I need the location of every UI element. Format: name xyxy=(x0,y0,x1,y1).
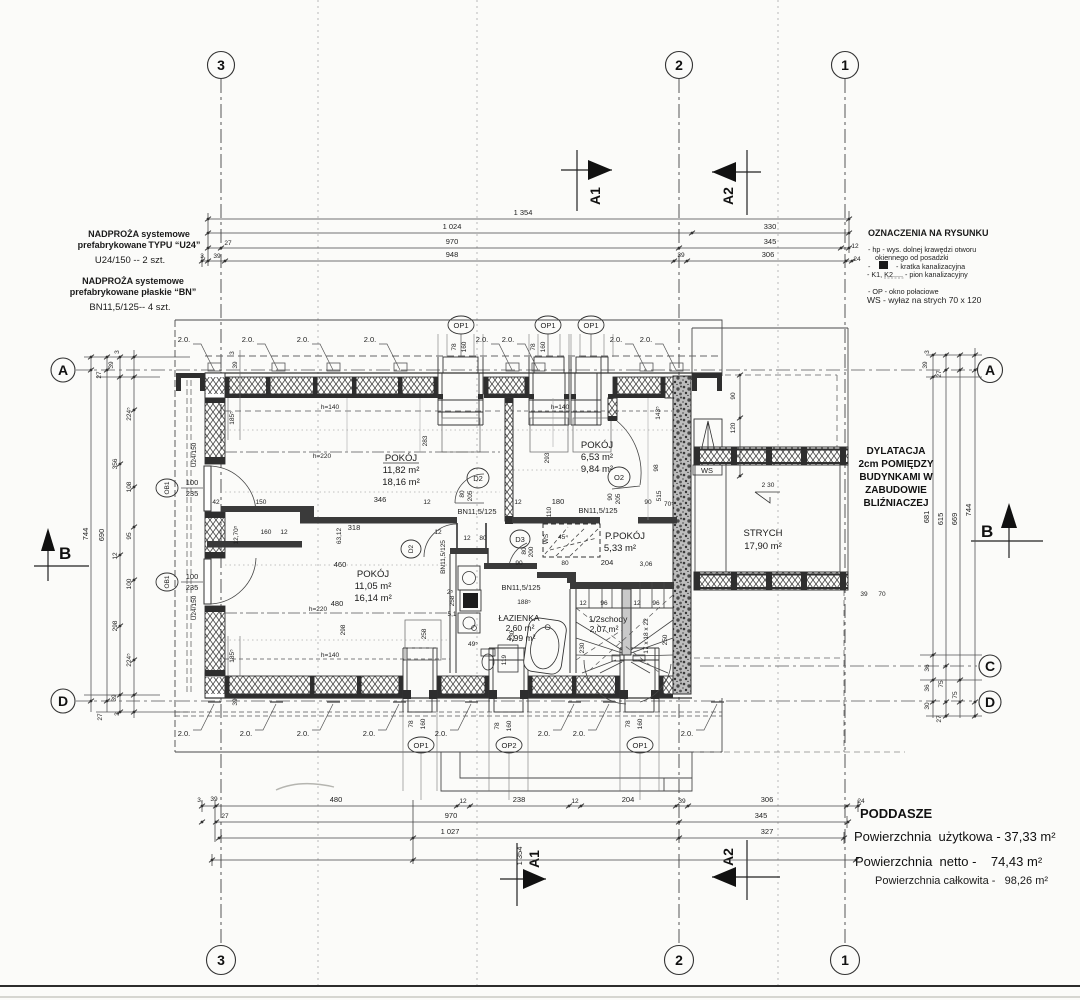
svg-text:O2: O2 xyxy=(614,473,624,482)
svg-text:DYLATACJA: DYLATACJA xyxy=(866,446,925,457)
stairs enclosure walls xyxy=(569,589,571,673)
OB1 label circles xyxy=(156,479,178,497)
svg-text:h=140: h=140 xyxy=(551,404,570,411)
svg-text:9,84 m²: 9,84 m² xyxy=(581,464,613,475)
svg-text:WS: WS xyxy=(701,466,713,475)
section marker B left xyxy=(34,528,89,581)
left dimension column xyxy=(84,350,190,718)
svg-text:293: 293 xyxy=(544,452,551,463)
svg-text:2: 2 xyxy=(675,57,683,73)
bottom step outline xyxy=(441,752,692,791)
svg-text:11,82 m²: 11,82 m² xyxy=(383,465,420,476)
left exterior wall xyxy=(205,398,225,464)
page edge light line xyxy=(0,996,1080,998)
svg-text:27: 27 xyxy=(96,371,103,379)
interior wall U-jog near D2 xyxy=(457,523,486,550)
axis C right circle xyxy=(979,655,1001,677)
svg-text:OB1: OB1 xyxy=(164,575,171,588)
svg-text:480: 480 xyxy=(330,795,343,804)
svg-text:6,53 m²: 6,53 m² xyxy=(581,452,613,463)
interior wall H1 xyxy=(221,506,314,512)
svg-text:12: 12 xyxy=(514,499,522,506)
svg-text:200: 200 xyxy=(528,546,535,557)
svg-text:298: 298 xyxy=(340,624,347,635)
svg-text:90: 90 xyxy=(607,493,614,501)
svg-text:A1: A1 xyxy=(587,187,603,205)
svg-text:C: C xyxy=(985,658,995,674)
svg-text:12: 12 xyxy=(459,798,467,805)
annex top wall xyxy=(694,447,848,465)
svg-text:STRYCH: STRYCH xyxy=(744,528,783,539)
svg-text:2.0.: 2.0. xyxy=(297,729,310,738)
kitchen fixtures xyxy=(458,566,480,590)
svg-text:744: 744 xyxy=(964,504,973,517)
knee line h=220 top xyxy=(225,451,500,453)
wall V3 kitchen left xyxy=(449,554,451,673)
svg-text:27: 27 xyxy=(97,713,104,721)
grid axis 3 top circle xyxy=(208,52,235,79)
svg-text:5,33 m²: 5,33 m² xyxy=(604,543,636,554)
svg-text:2⁵: 2⁵ xyxy=(447,589,454,596)
bathtub xyxy=(522,617,567,676)
fold line x778 xyxy=(777,0,779,985)
OP1 label circle bottom xyxy=(627,737,653,753)
svg-text:prefabrykowane TYPU “U24”: prefabrykowane TYPU “U24” xyxy=(78,240,201,250)
svg-text:2cm POMIĘDZY: 2cm POMIĘDZY xyxy=(858,459,933,470)
svg-text:108: 108 xyxy=(126,481,133,492)
svg-text:U24/150 -- 2 szt.: U24/150 -- 2 szt. xyxy=(95,255,165,266)
svg-text:2.0.: 2.0. xyxy=(178,335,191,344)
svg-text:27: 27 xyxy=(936,370,943,378)
svg-text:1 024: 1 024 xyxy=(443,222,462,231)
axis D right circle xyxy=(979,691,1001,713)
svg-text:39: 39 xyxy=(678,798,686,805)
svg-text:12: 12 xyxy=(112,552,119,560)
axis D left circle xyxy=(51,689,75,713)
svg-text:12: 12 xyxy=(579,600,587,607)
svg-text:12: 12 xyxy=(463,535,471,542)
svg-text:42: 42 xyxy=(212,499,220,506)
knee line h=140 bottom xyxy=(225,658,450,660)
svg-text:3: 3 xyxy=(924,350,931,354)
svg-text:346: 346 xyxy=(374,495,387,504)
svg-text:3,06: 3,06 xyxy=(640,561,653,568)
svg-text:2.0.: 2.0. xyxy=(538,729,551,738)
svg-text:D3: D3 xyxy=(515,535,525,544)
svg-text:970: 970 xyxy=(445,811,458,820)
svg-text:39: 39 xyxy=(232,361,239,369)
grid axis 3 vertical line xyxy=(220,79,222,945)
knee line h=220 bottom xyxy=(225,612,450,614)
axis A horizontal line xyxy=(76,369,977,371)
bottom windows OP1/OP2/OP1 xyxy=(403,648,437,712)
svg-text:356: 356 xyxy=(112,458,119,469)
svg-text:D: D xyxy=(985,694,995,710)
svg-text:12: 12 xyxy=(571,798,579,805)
eaves piece left of wall xyxy=(176,373,205,378)
svg-text:BN11,5/125: BN11,5/125 xyxy=(457,507,496,516)
fold line x477 xyxy=(476,0,478,985)
axis D horizontal line xyxy=(76,700,977,702)
interior wall V1 vertical x501-509 xyxy=(505,398,513,521)
svg-text:39: 39 xyxy=(922,361,929,369)
svg-text:615: 615 xyxy=(936,513,945,526)
WS hatched duct box xyxy=(543,524,600,557)
svg-text:2.0.: 2.0. xyxy=(242,335,255,344)
svg-text:A2: A2 xyxy=(720,848,736,866)
svg-text:NADPROŻA systemowe: NADPROŻA systemowe xyxy=(88,229,190,239)
svg-text:63,12: 63,12 xyxy=(336,527,343,544)
svg-text:204: 204 xyxy=(622,795,635,804)
annex bottom wall xyxy=(694,572,848,590)
axis A right circle xyxy=(978,358,1003,383)
svg-text:BN11,5/125: BN11,5/125 xyxy=(440,540,447,574)
svg-text:78: 78 xyxy=(408,720,415,728)
svg-text:744: 744 xyxy=(81,528,90,541)
top dimension lines xyxy=(202,211,852,267)
svg-text:2.0.: 2.0. xyxy=(502,335,515,344)
svg-text:1 027: 1 027 xyxy=(441,827,460,836)
svg-text:185⁵: 185⁵ xyxy=(229,649,236,663)
svg-text:D2: D2 xyxy=(408,544,415,553)
svg-text:235: 235 xyxy=(186,583,199,592)
fold line x318 xyxy=(317,0,319,985)
svg-text:78: 78 xyxy=(451,343,458,351)
svg-text:3: 3 xyxy=(229,351,236,355)
svg-text:250: 250 xyxy=(662,634,669,645)
svg-text:70: 70 xyxy=(878,591,886,598)
bottom dimension lines xyxy=(202,800,860,866)
svg-text:298: 298 xyxy=(112,620,119,631)
svg-text:96: 96 xyxy=(600,600,608,607)
svg-text:669: 669 xyxy=(950,513,959,526)
svg-text:3: 3 xyxy=(114,712,121,716)
svg-text:80: 80 xyxy=(561,560,569,567)
svg-text:27: 27 xyxy=(224,240,232,247)
svg-text:POKÓJ: POKÓJ xyxy=(581,440,613,451)
knee line h=140 top xyxy=(225,410,500,412)
svg-text:143⁵: 143⁵ xyxy=(655,406,662,420)
svg-text:OP1: OP1 xyxy=(413,741,428,750)
svg-text:11,05 m²: 11,05 m² xyxy=(355,581,392,592)
svg-text:WS - wyłaz na strych 70 x 120: WS - wyłaz na strych 70 x 120 xyxy=(867,295,982,305)
svg-text:2,07 m²: 2,07 m² xyxy=(590,624,619,634)
svg-text:D: D xyxy=(58,693,68,709)
svg-text:970: 970 xyxy=(446,237,459,246)
svg-text:948: 948 xyxy=(446,250,459,259)
svg-text:B: B xyxy=(981,522,993,541)
grid axis 1 vertical line xyxy=(844,79,846,945)
svg-text:1/2schody: 1/2schody xyxy=(589,614,628,624)
svg-text:160: 160 xyxy=(506,720,513,731)
svg-text:160: 160 xyxy=(420,718,427,729)
svg-text:12: 12 xyxy=(280,529,288,536)
svg-text:39: 39 xyxy=(232,698,239,706)
svg-text:1: 1 xyxy=(841,952,849,968)
svg-text:2.0.: 2.0. xyxy=(435,729,448,738)
svg-text:224⁵: 224⁵ xyxy=(126,653,133,667)
annex outline xyxy=(692,328,848,573)
grid axis 3 bottom circle xyxy=(207,946,236,975)
interior wall H5 xyxy=(207,541,302,548)
svg-text:80: 80 xyxy=(479,535,487,542)
wall H6 bathroom top jogged xyxy=(450,548,488,554)
svg-text:17,90 m²: 17,90 m² xyxy=(744,541,782,552)
bottom exterior wall xyxy=(225,676,403,694)
svg-text:OP1: OP1 xyxy=(453,321,468,330)
svg-text:80: 80 xyxy=(521,547,528,555)
svg-text:90: 90 xyxy=(515,560,523,567)
door OB1 upper with swing arc xyxy=(204,466,211,511)
svg-text:345: 345 xyxy=(764,237,777,246)
stairs treads xyxy=(589,582,664,608)
interior wall V2 stub xyxy=(608,398,617,420)
svg-text:Powierzchnia całkowita - 98,: Powierzchnia całkowita - 98,26 m² xyxy=(875,875,1048,887)
section marker A2 top xyxy=(712,150,761,215)
svg-text:45⁴: 45⁴ xyxy=(558,534,568,541)
svg-text:2.0.: 2.0. xyxy=(178,729,191,738)
svg-text:OP1: OP1 xyxy=(632,741,647,750)
svg-text:258: 258 xyxy=(421,628,428,639)
svg-text:A: A xyxy=(985,362,995,378)
svg-text:188⁵: 188⁵ xyxy=(517,599,531,606)
svg-text:OP2: OP2 xyxy=(501,741,516,750)
svg-text:238: 238 xyxy=(513,795,526,804)
svg-text:230: 230 xyxy=(579,642,586,653)
svg-text:110: 110 xyxy=(546,506,553,517)
svg-text:BN11,5/125: BN11,5/125 xyxy=(501,583,540,592)
svg-text:U24/150: U24/150 xyxy=(191,595,198,620)
svg-text:OP1: OP1 xyxy=(583,321,598,330)
svg-text:120: 120 xyxy=(730,422,737,433)
svg-text:39: 39 xyxy=(860,591,868,598)
svg-text:306: 306 xyxy=(762,250,775,259)
OP1 label circle top xyxy=(535,316,561,334)
svg-text:78: 78 xyxy=(625,720,632,728)
svg-text:160: 160 xyxy=(540,341,547,352)
svg-text:330: 330 xyxy=(764,222,777,231)
svg-text:36: 36 xyxy=(924,684,931,692)
svg-text:39: 39 xyxy=(111,694,118,702)
svg-text:306: 306 xyxy=(761,795,774,804)
grid axis 2 vertical line xyxy=(678,79,680,945)
top windows OP1 xyxy=(438,357,483,425)
dark square fixture xyxy=(463,593,478,608)
roof dashed line above top wall xyxy=(205,355,722,357)
right dimension column xyxy=(920,348,982,718)
svg-text:prefabrykowane płaskie “BN”: prefabrykowane płaskie “BN” xyxy=(70,287,197,297)
svg-text:B: B xyxy=(59,544,71,563)
svg-text:185⁵: 185⁵ xyxy=(229,411,236,425)
svg-text:BN11,5/125: BN11,5/125 xyxy=(578,506,617,515)
door D2 lower arc xyxy=(424,524,457,557)
interior unit above bottom window W1 xyxy=(405,620,441,660)
svg-text:1: 1 xyxy=(841,57,849,73)
bathroom corner junction xyxy=(567,574,576,583)
light guide verticals in plan xyxy=(347,398,648,520)
svg-text:235: 235 xyxy=(186,489,199,498)
svg-text:BLIŹNIACZEJ: BLIŹNIACZEJ xyxy=(864,496,929,509)
svg-text:39: 39 xyxy=(210,796,218,803)
section marker B right xyxy=(971,503,1043,558)
eaves dashed lines below building xyxy=(175,711,722,713)
svg-text:345: 345 xyxy=(755,811,768,820)
door OB1 lower with swing arc xyxy=(204,559,211,604)
svg-text:150: 150 xyxy=(256,499,267,506)
svg-text:180: 180 xyxy=(552,497,565,506)
svg-text:WS: WS xyxy=(543,533,550,544)
shower box 119 xyxy=(498,645,518,672)
svg-text:P.POKÓJ: P.POKÓJ xyxy=(605,531,645,542)
svg-text:12,70⁵: 12,70⁵ xyxy=(233,525,240,544)
right exterior wall mottled xyxy=(673,376,691,694)
svg-text:Powierzchnia użytkowa - 37,33: Powierzchnia użytkowa - 37,33 m² xyxy=(854,829,1056,844)
svg-text:283: 283 xyxy=(422,435,429,446)
interior wall H2 xyxy=(300,517,457,524)
svg-text:27: 27 xyxy=(221,813,229,820)
svg-text:96: 96 xyxy=(652,600,660,607)
svg-text:18,16 m²: 18,16 m² xyxy=(382,477,420,488)
svg-text:BN11,5/125-- 4 szt.: BN11,5/125-- 4 szt. xyxy=(89,302,170,313)
svg-text:okiennego od posadzki: okiennego od posadzki xyxy=(875,253,949,262)
dashed extension line y752 right xyxy=(694,751,905,753)
svg-text:681: 681 xyxy=(922,511,931,524)
WC xyxy=(482,654,494,670)
svg-text:27: 27 xyxy=(936,715,943,723)
svg-text:205: 205 xyxy=(615,493,622,504)
svg-text:80: 80 xyxy=(459,490,466,498)
svg-text:24: 24 xyxy=(853,256,861,263)
WS ladder hatch xyxy=(694,419,722,447)
svg-text:160: 160 xyxy=(261,529,272,536)
svg-text:160: 160 xyxy=(637,718,644,729)
svg-text:515: 515 xyxy=(656,490,663,501)
svg-text:1 354: 1 354 xyxy=(514,208,533,217)
section marker A2 bottom xyxy=(712,840,780,900)
svg-text:h=220: h=220 xyxy=(309,606,328,613)
svg-text:2: 2 xyxy=(675,952,683,968)
stairs cross dashes xyxy=(576,608,660,673)
axis A left circle xyxy=(51,358,75,382)
svg-text:75: 75 xyxy=(938,680,945,688)
svg-text:2.0.: 2.0. xyxy=(476,335,489,344)
svg-text:2.0.: 2.0. xyxy=(297,335,310,344)
svg-text:39: 39 xyxy=(108,361,115,369)
svg-text:NADPROŻA systemowe: NADPROŻA systemowe xyxy=(82,276,184,286)
svg-text:100: 100 xyxy=(186,572,199,581)
svg-text:h=140: h=140 xyxy=(321,652,340,659)
grid axis 2 bottom circle xyxy=(665,946,694,975)
svg-text:39: 39 xyxy=(677,252,685,259)
OP1 label circle bottom xyxy=(408,737,434,753)
svg-text:3,: 3, xyxy=(200,253,206,260)
svg-text:h=220: h=220 xyxy=(313,453,332,460)
svg-text:480: 480 xyxy=(331,599,344,608)
svg-text:17 x 18 x 22: 17 x 18 x 22 xyxy=(643,618,650,654)
svg-text:327: 327 xyxy=(761,827,774,836)
svg-text:2.0.: 2.0. xyxy=(573,729,586,738)
svg-text:90: 90 xyxy=(730,392,737,400)
svg-text:Powierzchnia netto - 74,43: Powierzchnia netto - 74,43 m² xyxy=(855,854,1043,869)
svg-text:2.0.: 2.0. xyxy=(610,335,623,344)
svg-text:318: 318 xyxy=(348,523,361,532)
svg-text:3: 3 xyxy=(114,350,121,354)
svg-text:3: 3 xyxy=(217,952,225,968)
svg-text:119: 119 xyxy=(501,654,508,665)
door O2 arc xyxy=(617,421,641,485)
svg-text:30: 30 xyxy=(924,702,931,710)
svg-text:3: 3 xyxy=(217,57,225,73)
svg-text:78: 78 xyxy=(494,722,501,730)
OP1 label circle top xyxy=(448,316,474,334)
annex side lines xyxy=(694,465,696,572)
svg-text:100: 100 xyxy=(126,578,133,589)
svg-text:70⁵: 70⁵ xyxy=(664,501,674,508)
svg-text:1 354: 1 354 xyxy=(515,847,524,866)
svg-text:12: 12 xyxy=(423,499,431,506)
svg-text:230: 230 xyxy=(509,630,516,641)
svg-text:224⁵: 224⁵ xyxy=(126,407,133,421)
axis C horizontal line xyxy=(700,665,977,667)
svg-text:A1: A1 xyxy=(526,850,542,868)
svg-text:U24/150: U24/150 xyxy=(191,442,198,467)
svg-text:BUDYNKAMI W: BUDYNKAMI W xyxy=(859,472,933,483)
bottom frame line xyxy=(0,985,1080,987)
OP1 label circle top xyxy=(578,316,604,334)
svg-text:36: 36 xyxy=(924,664,931,672)
svg-text:24: 24 xyxy=(857,798,865,805)
svg-text:16,14 m²: 16,14 m² xyxy=(354,593,392,604)
svg-text:OP1: OP1 xyxy=(540,321,555,330)
svg-text:PODDASZE: PODDASZE xyxy=(860,806,933,821)
grid axis 1 bottom circle xyxy=(831,946,860,975)
svg-text:2.0.: 2.0. xyxy=(364,335,377,344)
svg-text:2 30: 2 30 xyxy=(762,482,775,489)
svg-text:204: 204 xyxy=(601,558,614,567)
section marker A1 top xyxy=(561,150,612,211)
svg-text:690: 690 xyxy=(97,529,106,542)
svg-text:460: 460 xyxy=(334,560,347,569)
interior wall H4 with door gaps xyxy=(512,517,600,524)
grid axis 2 top circle xyxy=(666,52,693,79)
svg-text:98: 98 xyxy=(653,464,660,472)
grid axis 1 top circle xyxy=(832,52,859,79)
svg-text:h=140: h=140 xyxy=(321,404,340,411)
OP2 label circle bottom xyxy=(496,737,522,753)
svg-text:258: 258 xyxy=(449,595,456,606)
svg-text:12: 12 xyxy=(633,600,641,607)
svg-text:95: 95 xyxy=(126,532,133,540)
svg-text:- K1, K2..... - pion kanalizac: - K1, K2..... - pion kanalizacyjny xyxy=(867,270,968,279)
svg-text:3,: 3, xyxy=(197,797,203,804)
svg-text:39: 39 xyxy=(213,253,221,260)
svg-text:75: 75 xyxy=(952,691,959,699)
WS label box xyxy=(693,465,722,475)
svg-text:2.0.: 2.0. xyxy=(640,335,653,344)
svg-text:POKÓJ: POKÓJ xyxy=(357,569,389,580)
svg-text:ZABUDOWIE: ZABUDOWIE xyxy=(865,485,927,496)
building eaves outline box xyxy=(175,320,722,752)
svg-text:100: 100 xyxy=(186,478,199,487)
annex inner dim 90/120 xyxy=(739,375,741,476)
stairs winder fan xyxy=(576,620,673,704)
section marker A1 bottom xyxy=(500,843,546,906)
svg-text:160: 160 xyxy=(461,341,468,352)
stairs central spine wall xyxy=(622,589,631,655)
svg-text:A2: A2 xyxy=(720,187,736,205)
svg-text:OZNACZENIA NA RYSUNKU: OZNACZENIA NA RYSUNKU xyxy=(868,228,989,238)
door D2 top arc xyxy=(455,474,484,503)
